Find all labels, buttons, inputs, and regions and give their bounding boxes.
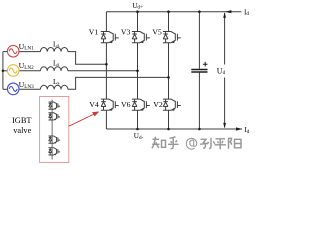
char 孙 <box>200 138 215 149</box>
svg-text:valve: valve <box>13 126 31 135</box>
watermark 知乎 @孙平阳 (hand drawn, gray) <box>152 137 241 150</box>
node: bottom bus leg3 <box>167 128 170 131</box>
wire: leg 1 middle <box>105 43 107 99</box>
IGBT valve V1 <box>101 32 119 44</box>
wire: leg 2 top <box>137 12 139 32</box>
capacitor plus sign <box>203 62 208 67</box>
svg-text:V6: V6 <box>121 100 131 109</box>
IGBT valve V6 <box>132 99 150 111</box>
wire: leg 2 middle <box>137 43 139 99</box>
IGBT valve V5 <box>163 32 181 44</box>
wire: phase 2 line source to inductor <box>19 70 40 72</box>
wire: leg 3 middle <box>168 43 170 99</box>
wire: phase 1 jog to bridge leg 1 <box>68 52 107 65</box>
wire: leg 2 bottom <box>137 110 139 129</box>
wire: AC neutral bus (left vertical) <box>2 52 4 90</box>
wire: leg 3 top <box>168 12 170 32</box>
svg-text:IGBT: IGBT <box>12 116 32 125</box>
wire: leg 1 top <box>105 12 107 32</box>
node: neutral bus phase2 <box>2 70 5 73</box>
wire: leg 1 bottom <box>105 110 107 129</box>
node: junction dot phase1-leg1 <box>105 63 108 66</box>
series IGBT 4 <box>48 148 60 156</box>
svg-text:V5: V5 <box>152 28 162 37</box>
inductor Ls phase 1 <box>40 48 68 52</box>
arrowhead: Ud measure down <box>223 123 226 128</box>
node: top bus leg2 <box>136 10 139 13</box>
node: top bus leg3 <box>167 10 170 13</box>
node: bottom bus capacitor <box>198 128 201 131</box>
wire: phase 1 line source to inductor <box>19 51 40 53</box>
series IGBT 1 <box>48 102 60 110</box>
node: top bus capacitor <box>198 10 201 13</box>
AC source ULN3 (blue) <box>7 83 19 95</box>
arrowhead: Id bottom (pointing right) <box>236 127 242 130</box>
AC source ULN1 (red) <box>7 45 19 57</box>
capacitor C plates <box>191 70 207 73</box>
svg-text:V3: V3 <box>121 28 131 37</box>
wire: phase 3 line source to inductor <box>19 88 40 90</box>
wire: top DC bus Ud+ <box>106 11 241 13</box>
series IGBT chain wire <box>51 100 53 160</box>
arrowhead: Ud measure up <box>223 12 226 17</box>
series IGBT 3 <box>48 136 60 144</box>
IGBT valve V2 <box>163 99 181 111</box>
char 知 <box>152 137 166 149</box>
AC source ULN2 (yellow) <box>7 65 19 77</box>
voltage arrow Ud upper segment <box>224 13 226 65</box>
voltage arrow Ud lower segment <box>224 78 226 128</box>
IGBT valve V4 <box>101 99 119 111</box>
wire: phase 2 stub to source <box>3 70 8 72</box>
arrowhead: Id top (pointing left) <box>225 10 231 13</box>
series IGBT 2 <box>48 113 60 121</box>
inductor Ls phase 3 <box>40 85 68 89</box>
svg-text:V2: V2 <box>153 100 163 109</box>
wire: bottom DC bus Ud- <box>106 128 242 130</box>
node: junction dot phase2-leg2 <box>136 70 139 73</box>
wire: phase 3 jog to bridge leg 3 <box>68 77 169 89</box>
svg-text:V1: V1 <box>89 28 99 37</box>
wire: leg 3 bottom <box>168 110 170 129</box>
wire: phase 1 stub to source <box>3 51 8 53</box>
wire: phase 3 stub to source <box>3 88 8 90</box>
wire: capacitor branch top <box>198 12 200 69</box>
char 平 <box>215 139 227 150</box>
node: bottom bus leg2 <box>136 128 139 131</box>
IGBT valve detail box (red) <box>40 97 69 163</box>
svg-text:V4: V4 <box>89 100 99 109</box>
callout arrow from valve box to V4 <box>69 113 96 126</box>
char @ <box>186 138 196 149</box>
char 阳 <box>228 138 241 149</box>
wire: phase 2 line to bridge leg 2 <box>68 70 138 72</box>
IGBT valve V3 <box>132 32 150 44</box>
char 乎 <box>168 137 179 149</box>
node: junction dot phase3-leg3 <box>167 76 170 79</box>
wire: capacitor branch bottom <box>198 73 200 129</box>
inductor Ls phase 2 <box>40 67 68 71</box>
